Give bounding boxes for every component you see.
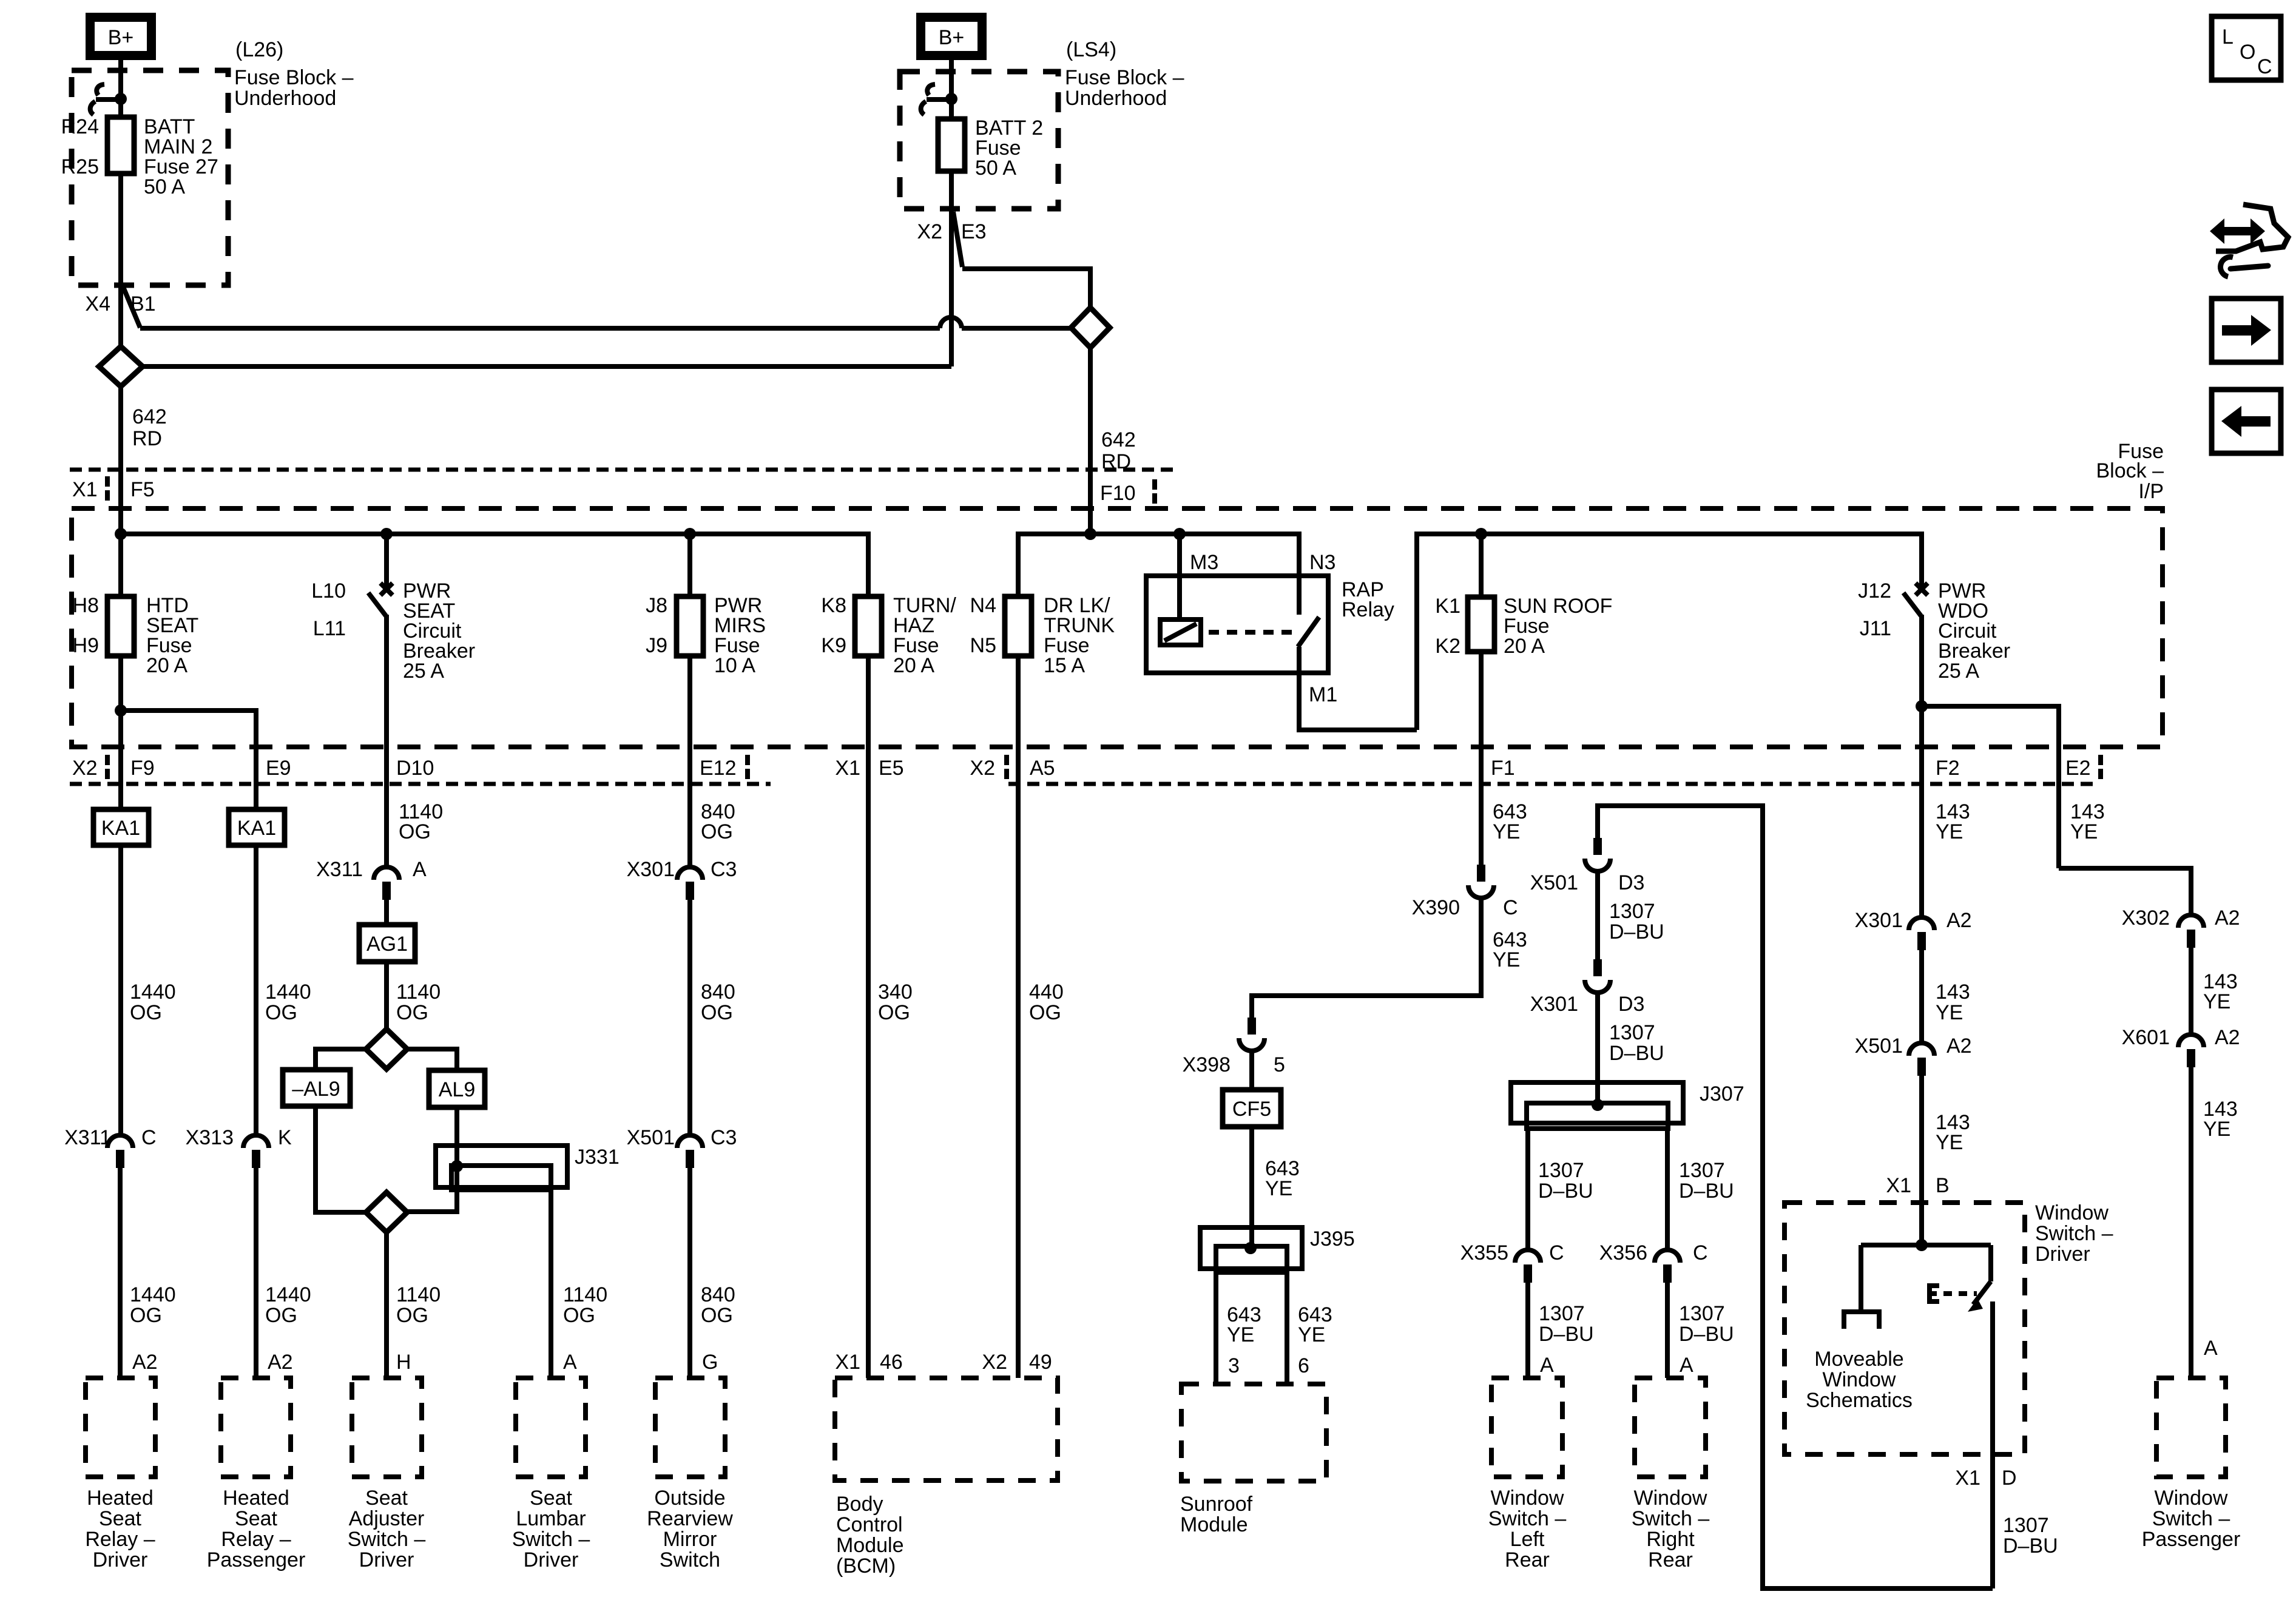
svg-text:X301: X301 [627,858,675,881]
svg-text:RD: RD [132,427,162,450]
svg-text:L: L [2222,25,2234,49]
component box Body Control Module (BCM) [835,1378,1058,1480]
svg-text:OG: OG [265,1001,297,1024]
connector X601 pin A2 [2178,1035,2204,1067]
svg-text:X356: X356 [1599,1241,1647,1264]
svg-text:Fuse Block –: Fuse Block – [234,66,354,89]
svg-text:Window: Window [2155,1487,2228,1510]
connector X356 pin C [1655,1250,1680,1283]
svg-text:L11: L11 [313,617,346,640]
svg-text:OG: OG [130,1001,162,1024]
component box Seat Adjuster Switch - Driver [352,1378,422,1477]
svg-text:Heated: Heated [87,1487,154,1510]
fuse holder KA1 passenger [229,809,285,845]
svg-text:20 A: 20 A [146,654,187,677]
component box Heated Seat Relay - Driver [86,1378,155,1477]
svg-text:B+: B+ [939,26,965,49]
svg-text:Driver: Driver [2035,1243,2090,1266]
svg-text:F2: F2 [1936,757,1960,780]
svg-text:B+: B+ [108,26,134,49]
wire 642 RD horizontal B1 to splice diamond (with hop) [140,326,940,331]
svg-text:440: 440 [1029,981,1064,1004]
svg-text:Module: Module [1180,1513,1248,1536]
svg-text:20 A: 20 A [1504,635,1545,658]
svg-text:D–BU: D–BU [1679,1180,1734,1203]
icon LOC box [2212,16,2281,80]
wire J307 to X356 [1665,1129,1670,1249]
svg-text:1140: 1140 [563,1283,607,1306]
svg-text:YE: YE [1493,948,1520,971]
svg-text:1440: 1440 [265,1283,311,1306]
svg-text:Driver: Driver [524,1548,579,1571]
svg-text:OG: OG [701,1001,733,1024]
pigtail symbol LS4 [927,84,935,95]
svg-text:G: G [702,1351,718,1374]
fuse holder KA1 driver [93,809,149,845]
svg-text:YE: YE [2070,820,2098,843]
svg-text:YE: YE [1227,1323,1254,1346]
svg-text:X501: X501 [1530,871,1578,894]
svg-text:X311: X311 [64,1126,111,1149]
svg-text:Window: Window [1491,1487,1564,1510]
wire internal tee [1861,1243,1991,1247]
svg-text:Left: Left [1510,1528,1545,1551]
svg-text:C: C [1503,896,1518,919]
junction dot at LS4 pigtail [945,93,957,105]
svg-text:F10: F10 [1100,482,1136,505]
svg-text:X1: X1 [835,1351,860,1374]
svg-text:AG1: AG1 [366,933,408,956]
component box Sunroof Module [1181,1384,1326,1481]
svg-text:Sunroof: Sunroof [1180,1493,1253,1516]
relay RAP Relay [1146,576,1328,673]
svg-text:C3: C3 [711,1126,737,1149]
svg-text:AL9: AL9 [439,1078,476,1101]
svg-text:Switch –: Switch – [1632,1507,1710,1530]
svg-text:OG: OG [399,820,431,843]
svg-text:X2: X2 [72,757,98,780]
svg-text:A2: A2 [2215,906,2240,930]
wire fuse to X4/B1 and diamond [118,174,123,346]
svg-text:Relay –: Relay – [85,1528,155,1551]
svg-text:F5: F5 [130,478,155,501]
relay coil symbol [1160,619,1201,645]
wire S1 to fuse block F5 [118,387,123,534]
junction node F10 feed [1084,528,1096,540]
junction node at PWR MIRS column [684,528,696,540]
wire bus segment 2 (F10 feed) [1018,534,1299,615]
wire lower 604 bus to BATT2 riser [143,364,951,369]
svg-text:CF5: CF5 [1232,1098,1271,1121]
component box Window Switch - Driver [1784,1203,2025,1454]
svg-text:D–BU: D–BU [1609,1042,1664,1065]
wire S3 left branch to -AL9 [316,1049,366,1070]
wire AL9 through J331 to splice diamond S4 [407,1107,457,1212]
svg-text:OG: OG [701,820,733,843]
svg-text:C: C [1549,1241,1564,1264]
wire bottom return loop [1598,806,1993,1588]
wire 642 RD E3 to splice diamond S2 [962,269,1090,308]
svg-text:Relay: Relay [1342,598,1394,621]
connector line X1 top dotted [70,468,1177,472]
relay actuation dashed link [1209,630,1292,635]
svg-text:M3: M3 [1190,551,1218,574]
svg-text:X302: X302 [2122,906,2170,930]
wire SUN ROOF fuse to F1 [1479,652,1484,865]
svg-text:OG: OG [563,1304,595,1327]
svg-text:X601: X601 [2122,1026,2170,1049]
component box Window Switch - Left Rear [1491,1378,1562,1477]
svg-text:Seat: Seat [99,1507,141,1530]
svg-text:X311: X311 [316,858,363,881]
svg-text:I/P: I/P [2138,480,2164,503]
svg-text:D–BU: D–BU [1679,1323,1734,1346]
splice pack J307 [1511,1082,1683,1123]
svg-text:J395: J395 [1310,1227,1355,1251]
wire S3 right branch to AL9 [407,1049,457,1070]
svg-text:E9: E9 [266,757,291,780]
svg-text:Window: Window [1823,1368,1896,1391]
fuse SUN ROOF Fuse 20 A [1468,597,1494,652]
svg-text:D: D [2002,1467,2017,1490]
svg-text:A: A [563,1351,577,1374]
svg-text:E3: E3 [961,220,987,243]
svg-text:YE: YE [1936,820,1963,843]
svg-text:OG: OG [1029,1001,1061,1024]
svg-text:OG: OG [396,1304,428,1327]
svg-text:Schematics: Schematics [1806,1389,1913,1412]
svg-text:YE: YE [1936,1001,1963,1024]
icon arrow left box [2212,390,2281,453]
splice pack J331 [436,1146,567,1187]
fuse holder AG1 [359,925,415,962]
svg-text:25 A: 25 A [1938,660,1979,683]
wire -AL9 to splice diamond S4 [316,1106,366,1212]
svg-text:X301: X301 [1530,993,1578,1016]
svg-text:Underhood: Underhood [1065,87,1167,110]
svg-text:H: H [396,1351,411,1374]
fuse holder -AL9 [283,1070,350,1106]
svg-text:D–BU: D–BU [1609,920,1664,944]
svg-text:YE: YE [1936,1131,1963,1154]
connector X301 pin C3 [677,867,703,900]
wire RAP M1 output to bus 3 [1299,647,1417,730]
wire J395 to sunroof pin 6 [1285,1272,1289,1384]
component box Window Switch - Passenger [2156,1378,2226,1477]
wire X313 to heated seat relay passenger [254,1168,258,1378]
svg-text:X501: X501 [1855,1035,1903,1058]
wire PWR MIRS column from bus [687,534,692,596]
svg-text:–AL9: –AL9 [292,1078,340,1101]
svg-text:A: A [413,858,427,881]
svg-text:K8: K8 [821,594,846,617]
wire X302 to X601 [2189,948,2193,1033]
svg-text:1307: 1307 [1679,1302,1725,1325]
svg-text:840: 840 [701,981,735,1004]
svg-text:A2: A2 [1947,1035,1972,1058]
svg-text:A5: A5 [1030,757,1055,780]
svg-text:R25: R25 [61,155,99,178]
svg-text:X390: X390 [1412,896,1460,919]
svg-text:K1: K1 [1435,595,1460,618]
wire B+ to BATT2 fuse [949,60,954,119]
svg-text:49: 49 [1029,1351,1052,1374]
fuse PWR MIRS Fuse 10 A [677,596,703,656]
svg-text:D3: D3 [1618,871,1644,894]
svg-text:(BCM): (BCM) [836,1555,896,1578]
wire TURN/HAZ fuse to BCM 46 [866,656,871,1378]
svg-text:Lumbar: Lumbar [516,1507,586,1530]
junction node RAP coil M3 [1173,528,1186,540]
svg-text:Switch –: Switch – [1488,1507,1567,1530]
svg-text:143: 143 [1936,981,1970,1004]
svg-text:H9: H9 [73,634,99,657]
component box Outside Rearview Mirror Switch [655,1378,725,1477]
splice diamond S3 [366,1029,407,1069]
svg-text:J8: J8 [646,594,667,617]
svg-text:3: 3 [1228,1354,1240,1377]
svg-text:Seat: Seat [235,1507,277,1530]
svg-text:Switch –: Switch – [512,1528,590,1551]
junction node at PWR SEAT column [380,528,393,540]
svg-text:Seat: Seat [530,1487,572,1510]
svg-text:A2: A2 [268,1351,293,1374]
wire J395 to sunroof pin 3 [1214,1272,1218,1384]
wire branch to E9 [121,711,256,809]
svg-text:(LS4): (LS4) [1066,38,1116,61]
svg-text:Fuse Block –: Fuse Block – [1065,66,1184,89]
svg-text:Relay –: Relay – [221,1528,291,1551]
svg-text:10 A: 10 A [714,654,755,677]
wire KA1 driver down [118,845,123,1134]
svg-text:Passenger: Passenger [2142,1528,2241,1551]
svg-text:Rear: Rear [1505,1548,1550,1571]
svg-text:340: 340 [878,981,913,1004]
junction node inside driver switch [1916,1239,1928,1251]
svg-text:C3: C3 [711,858,737,881]
component box Window Switch - Right Rear [1635,1378,1706,1477]
svg-text:25 A: 25 A [403,660,444,683]
fuse TURN/HAZ Fuse 20 A [855,596,882,656]
svg-text:Seat: Seat [365,1487,408,1510]
svg-text:OG: OG [396,1001,428,1024]
wire B+ to fuse [118,60,123,117]
relay switch arm [1298,617,1319,647]
svg-text:D3: D3 [1618,993,1644,1016]
svg-text:X301: X301 [1855,909,1903,932]
svg-text:Driver: Driver [93,1548,148,1571]
svg-text:5: 5 [1274,1053,1285,1076]
svg-text:Outside: Outside [654,1487,725,1510]
battery feed B+ (L26) [90,18,152,56]
svg-text:1307: 1307 [1609,1021,1655,1044]
junction node at HTD SEAT column [115,528,127,540]
pigtail symbol L26 [96,84,104,95]
svg-text:J12: J12 [1858,579,1891,603]
fuse BATT 2 Fuse 50 A [938,119,965,171]
svg-text:K9: K9 [821,634,846,657]
junction dot at L26 pigtail [115,93,127,105]
svg-text:C: C [141,1126,157,1149]
junction node heated seat branch [115,704,127,717]
wire X301 to X501 [1919,950,1924,1042]
wire X501 to driver window switch pin B [1919,1076,1924,1245]
svg-text:Underhood: Underhood [234,87,336,110]
wire X301 to J307 [1595,993,1600,1105]
svg-text:1440: 1440 [265,981,311,1004]
svg-text:A: A [1540,1354,1554,1377]
svg-text:X313: X313 [186,1126,234,1149]
svg-text:20 A: 20 A [893,654,934,677]
connector X302 pin A2 [2178,915,2204,948]
splice diamond S2 [1071,308,1110,348]
connector X398 pin 5 [1239,1018,1264,1051]
svg-text:B: B [1936,1174,1950,1197]
svg-text:840: 840 [701,1283,735,1306]
svg-text:50 A: 50 A [975,157,1016,180]
svg-text:X398: X398 [1183,1053,1231,1076]
svg-text:1440: 1440 [130,981,176,1004]
svg-text:6: 6 [1298,1354,1309,1377]
svg-text:A: A [2204,1337,2218,1360]
svg-text:X2: X2 [970,757,995,780]
svg-text:15 A: 15 A [1044,654,1085,677]
svg-text:1140: 1140 [396,1283,441,1306]
wire branch to E2 [1922,706,2059,868]
svg-text:Rearview: Rearview [647,1507,733,1530]
svg-text:H8: H8 [73,594,99,617]
connector X390 pin C [1468,865,1494,898]
svg-text:J9: J9 [646,634,667,657]
junction node SUN ROOF column [1475,528,1487,540]
svg-text:Switch: Switch [660,1548,720,1571]
svg-text:Control: Control [836,1513,903,1536]
svg-text:Right: Right [1646,1528,1695,1551]
svg-text:1307: 1307 [1679,1159,1725,1182]
connector X501 pin D3 [1585,838,1610,871]
svg-text:E5: E5 [879,757,904,780]
splice diamond S4 [366,1192,407,1232]
svg-text:OG: OG [130,1304,162,1327]
svg-text:1440: 1440 [130,1283,176,1306]
wire AG1 to splice diamond S3 [384,962,389,1029]
wire fuse to X2/E3 [949,171,954,366]
svg-text:E2: E2 [2065,757,2091,780]
connector X501 pin C3 [677,1135,703,1168]
svg-text:Switch –: Switch – [2035,1222,2113,1245]
svg-text:KA1: KA1 [237,817,276,840]
svg-text:D–BU: D–BU [1539,1323,1594,1346]
svg-text:K: K [278,1126,292,1149]
svg-text:X2: X2 [917,220,942,243]
svg-text:Window: Window [2035,1201,2109,1224]
svg-text:YE: YE [2203,1118,2230,1141]
svg-text:1307: 1307 [1539,1302,1585,1325]
svg-text:O: O [2240,41,2255,64]
wire E3 diagonal branch [953,212,962,267]
svg-text:N4: N4 [970,594,996,617]
wire X355 to left rear switch [1525,1283,1530,1378]
junction node PWR WDO split [1916,700,1928,712]
junction node J331 [451,1160,463,1172]
wire HTD SEAT fuse down to relay boxes [118,656,123,809]
svg-text:M1: M1 [1309,683,1337,706]
icon arrow right box [2212,299,2281,362]
connector X355 pin C [1515,1250,1541,1283]
svg-text:X1: X1 [1886,1174,1911,1197]
svg-text:A2: A2 [2215,1026,2240,1049]
connector X301 pin D3 [1585,959,1610,993]
connector line X2/X1/X2 bottom dotted [70,782,771,786]
circuit breaker PWR WDO 25 A [1903,583,1928,916]
svg-text:OG: OG [265,1304,297,1327]
wire CF5 to J395 [1249,1127,1254,1246]
wire X311 to AG1 [384,900,389,925]
svg-text:Switch –: Switch – [348,1528,426,1551]
svg-text:F1: F1 [1491,757,1515,780]
icon vehicle with double arrow and wrench [2210,204,2288,277]
wire KA1 passenger down [254,845,258,1134]
svg-text:YE: YE [1493,820,1520,843]
connector X501 pin A2 [1909,1043,1934,1076]
svg-text:X501: X501 [627,1126,675,1149]
wire X356 to right rear switch [1665,1283,1670,1378]
svg-text:1307: 1307 [2003,1514,2049,1537]
junction node J395 [1244,1242,1257,1254]
svg-text:D10: D10 [396,757,434,780]
connector X311 pin C [107,1135,133,1168]
svg-text:Moveable: Moveable [1814,1348,1903,1371]
connector X311 pin A [374,867,399,900]
svg-text:KA1: KA1 [101,817,140,840]
svg-text:642: 642 [132,405,167,428]
svg-text:N3: N3 [1309,551,1335,574]
svg-text:Heated: Heated [223,1487,289,1510]
wire bus segment 3 (RAP output) [1417,534,1922,730]
svg-text:X4: X4 [85,292,110,316]
svg-text:YE: YE [1265,1177,1292,1200]
component box Heated Seat Relay - Passenger [221,1378,291,1477]
svg-text:J331: J331 [575,1146,620,1169]
svg-text:Module: Module [836,1534,904,1557]
svg-text:642: 642 [1101,428,1136,451]
svg-text:E12: E12 [700,757,737,780]
svg-text:X1: X1 [835,757,860,780]
wire E2 jog to passenger column [2059,868,2191,914]
wire driver switch pin D down [1990,1301,1995,1588]
svg-text:K2: K2 [1435,635,1460,658]
svg-text:46: 46 [880,1351,903,1374]
component box Seat Lumbar Switch - Driver [516,1378,586,1477]
wire bus segment 1 (F5 feed) [121,534,868,596]
wire DR LK/TRUNK fuse to BCM 49 [1016,656,1021,1378]
svg-text:C: C [2257,55,2272,78]
wire X601 to passenger switch [2189,1067,2193,1378]
svg-text:L10: L10 [311,579,346,603]
svg-text:(L26): (L26) [235,38,283,61]
svg-text:YE: YE [2203,990,2230,1013]
component Fuse Block - I/P dashed box [72,508,2163,747]
circuit breaker PWR SEAT 25 A [368,583,393,866]
wire X398 to CF5 [1249,1051,1254,1090]
svg-text:50 A: 50 A [144,175,185,198]
svg-text:A2: A2 [132,1351,158,1374]
svg-text:OG: OG [878,1001,910,1024]
svg-text:Passenger: Passenger [207,1548,306,1571]
fuse BATT MAIN 2 Fuse 27 50 A [107,117,134,174]
wire SUN ROOF column from bus [1479,534,1484,597]
wire X501 to mirror switch [687,1168,692,1378]
